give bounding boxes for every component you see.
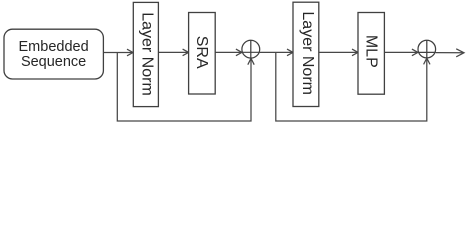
adder node 2 (circle plus): [418, 40, 436, 58]
wire skip connection 1: [117, 53, 254, 122]
svg-text:Layer Norm: Layer Norm: [138, 12, 155, 96]
wire MLP to adder 2: [384, 49, 435, 56]
svg-text:Layer Norm: Layer Norm: [299, 11, 316, 95]
adder node 1 (circle plus): [242, 40, 260, 58]
svg-text:MLP: MLP: [362, 35, 379, 68]
wire SRA to adder 1: [215, 49, 260, 56]
svg-text:Embedded: Embedded: [19, 39, 89, 55]
svg-text:Sequence: Sequence: [21, 54, 86, 70]
wire skip connection 2: [276, 53, 430, 122]
svg-text:SRA: SRA: [193, 36, 210, 69]
box Layer Norm 2: [293, 2, 319, 106]
box Layer Norm 1: [133, 2, 158, 106]
wire Layer Norm 2 to MLP: [319, 49, 358, 56]
wire output arrow: [436, 49, 464, 57]
wire adder 1 to Layer Norm 2: [260, 49, 293, 56]
box Embedded Sequence: [4, 29, 103, 79]
wire Layer Norm 1 to SRA: [158, 49, 188, 56]
box SRA: [189, 13, 216, 95]
wire input arrow to Layer Norm 1: [103, 49, 133, 56]
box MLP: [358, 13, 384, 95]
